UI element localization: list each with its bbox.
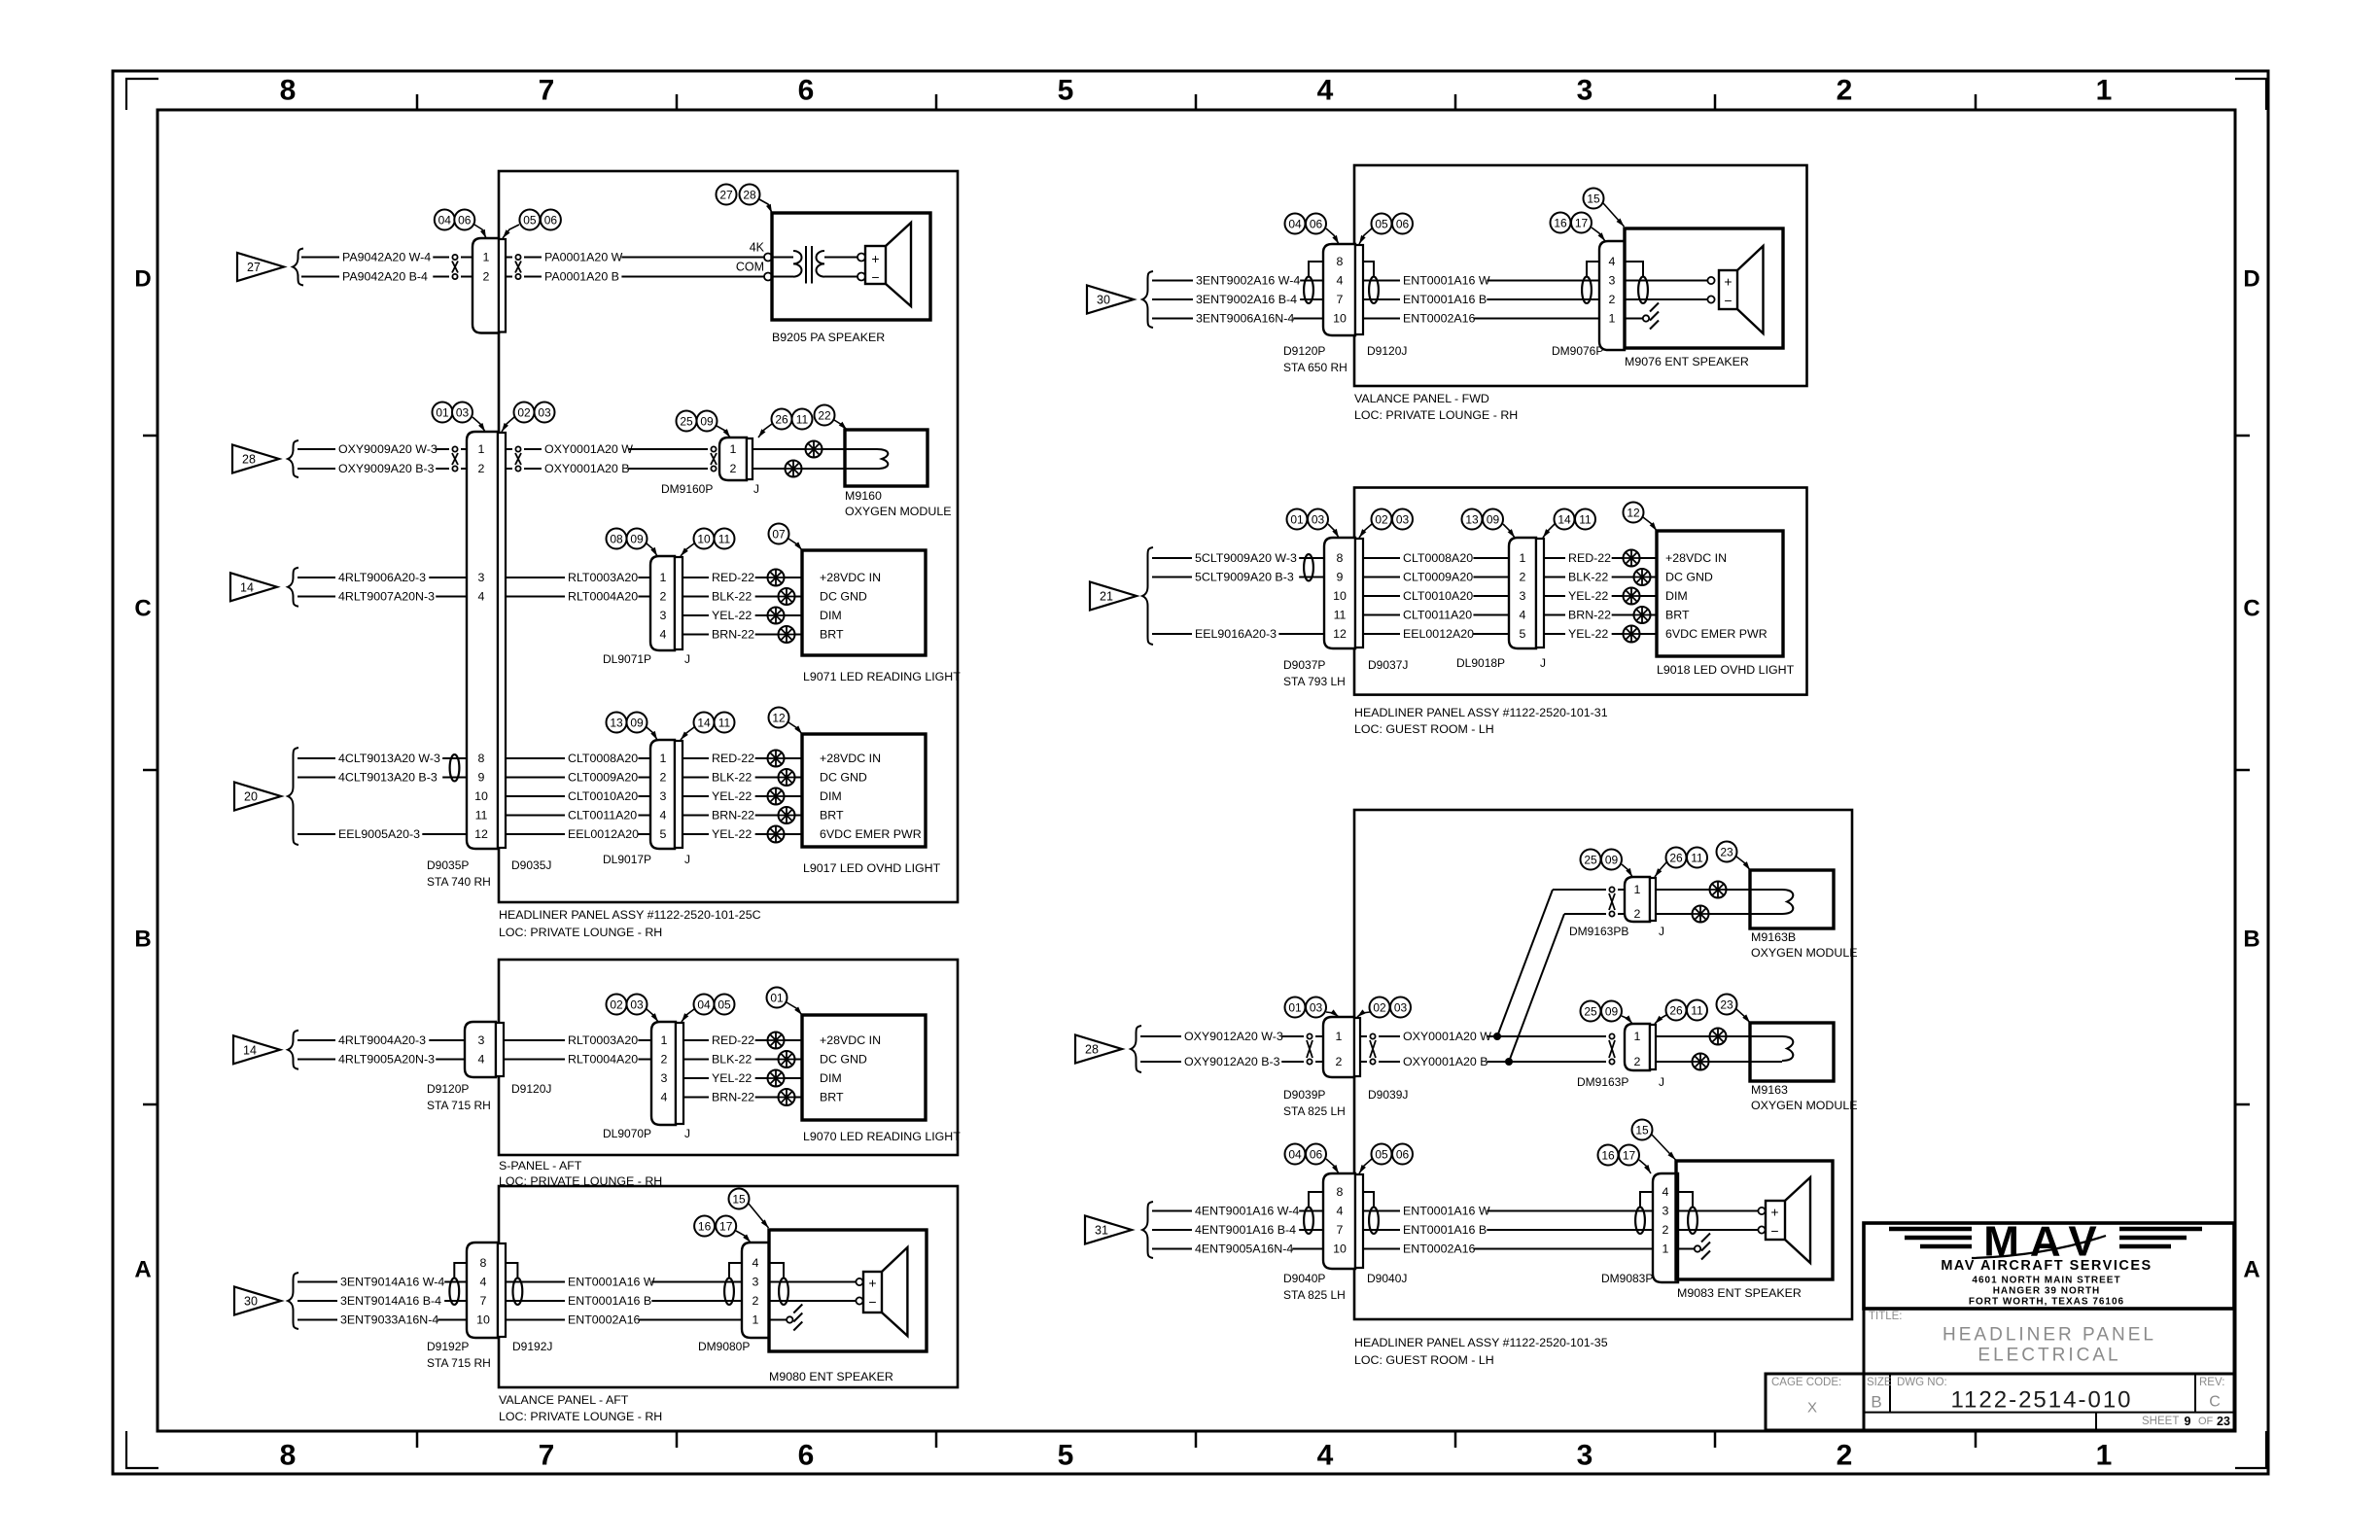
- svg-text:BLK-22: BLK-22: [1568, 571, 1608, 584]
- svg-text:CLT0010A20: CLT0010A20: [1403, 589, 1473, 603]
- svg-text:−: −: [1770, 1223, 1778, 1239]
- svg-text:3ENT9002A16 W-4: 3ENT9002A16 W-4: [1196, 274, 1300, 288]
- svg-text:10: 10: [1333, 589, 1347, 603]
- svg-text:+28VDC IN: +28VDC IN: [820, 571, 881, 584]
- svg-text:2: 2: [661, 1053, 668, 1067]
- svg-text:06: 06: [1396, 1148, 1410, 1162]
- svg-text:ENT0002A16: ENT0002A16: [568, 1313, 641, 1327]
- svg-text:D: D: [134, 266, 151, 293]
- svg-text:11: 11: [718, 533, 731, 546]
- svg-text:09: 09: [1605, 1005, 1619, 1019]
- svg-text:17: 17: [1575, 217, 1589, 230]
- svg-text:ENT0001A16 W: ENT0001A16 W: [1403, 1205, 1490, 1218]
- svg-text:EEL0012A20: EEL0012A20: [568, 827, 639, 841]
- svg-text:3ENT9014A16 B-4: 3ENT9014A16 B-4: [340, 1294, 441, 1308]
- svg-text:4ENT9001A16 W-4: 4ENT9001A16 W-4: [1195, 1205, 1299, 1218]
- svg-text:VALANCE PANEL - AFT: VALANCE PANEL - AFT: [499, 1393, 629, 1407]
- svg-text:20: 20: [244, 790, 258, 804]
- svg-text:DIM: DIM: [1665, 589, 1688, 603]
- svg-text:STA 740 RH: STA 740 RH: [427, 875, 491, 889]
- svg-text:10: 10: [476, 1313, 490, 1327]
- svg-text:06: 06: [1310, 218, 1323, 231]
- svg-text:3: 3: [1520, 589, 1526, 603]
- svg-text:03: 03: [1394, 1001, 1408, 1015]
- svg-text:X: X: [1807, 1400, 1817, 1417]
- svg-text:4: 4: [660, 628, 667, 642]
- svg-text:DM9080P: DM9080P: [698, 1340, 750, 1353]
- svg-text:OXYGEN MODULE: OXYGEN MODULE: [1751, 946, 1857, 960]
- svg-text:−: −: [1724, 293, 1732, 308]
- svg-text:C: C: [2209, 1394, 2221, 1411]
- svg-text:YEL-22: YEL-22: [1568, 627, 1608, 641]
- svg-text:M9163: M9163: [1751, 1083, 1788, 1097]
- svg-text:25: 25: [680, 415, 693, 429]
- svg-text:1: 1: [1634, 883, 1641, 896]
- svg-text:3: 3: [1577, 75, 1593, 107]
- svg-text:D9037J: D9037J: [1368, 658, 1408, 672]
- svg-text:BRT: BRT: [820, 809, 844, 822]
- svg-text:22: 22: [818, 409, 831, 423]
- svg-text:D9035P: D9035P: [427, 858, 469, 872]
- svg-text:10: 10: [1333, 1242, 1347, 1256]
- svg-text:DM9160P: DM9160P: [661, 482, 713, 496]
- svg-text:4CLT9013A20 B-3: 4CLT9013A20 B-3: [338, 771, 437, 785]
- svg-text:04: 04: [438, 214, 452, 227]
- svg-text:RLT0003A20: RLT0003A20: [568, 1033, 638, 1047]
- svg-text:STA 715 RH: STA 715 RH: [427, 1356, 491, 1370]
- svg-text:D9120J: D9120J: [511, 1082, 551, 1096]
- svg-text:YEL-22: YEL-22: [1568, 589, 1608, 603]
- svg-text:−: −: [868, 1294, 876, 1310]
- svg-text:28: 28: [242, 453, 256, 467]
- svg-text:DIM: DIM: [820, 789, 842, 803]
- svg-text:09: 09: [1605, 854, 1619, 867]
- svg-text:8: 8: [280, 1440, 297, 1472]
- svg-text:02: 02: [1375, 513, 1388, 527]
- svg-text:DL9017P: DL9017P: [603, 853, 651, 866]
- svg-text:23: 23: [2217, 1415, 2230, 1428]
- svg-text:RED-22: RED-22: [712, 752, 754, 765]
- svg-text:10: 10: [474, 789, 488, 803]
- svg-text:OXY0001A20 W: OXY0001A20 W: [544, 442, 633, 456]
- svg-text:CLT0008A20: CLT0008A20: [568, 752, 638, 765]
- svg-text:27: 27: [719, 189, 733, 202]
- svg-text:1: 1: [661, 1033, 668, 1047]
- svg-text:4: 4: [660, 809, 667, 822]
- svg-text:4: 4: [1337, 1205, 1344, 1218]
- svg-text:DIM: DIM: [820, 609, 842, 622]
- svg-text:RED-22: RED-22: [712, 571, 754, 584]
- svg-text:1: 1: [660, 752, 667, 765]
- svg-text:DL9070P: DL9070P: [603, 1127, 651, 1140]
- svg-text:COM: COM: [736, 261, 764, 274]
- svg-text:ELECTRICAL: ELECTRICAL: [1977, 1346, 2120, 1366]
- svg-text:BRN-22: BRN-22: [712, 809, 754, 822]
- svg-text:DM9163PB: DM9163PB: [1569, 925, 1628, 938]
- svg-text:08: 08: [610, 533, 623, 546]
- svg-text:2: 2: [1662, 1223, 1669, 1237]
- svg-text:OXYGEN MODULE: OXYGEN MODULE: [845, 505, 951, 518]
- svg-text:4: 4: [752, 1256, 759, 1270]
- svg-text:8: 8: [480, 1256, 487, 1270]
- svg-text:07: 07: [772, 528, 786, 542]
- svg-text:09: 09: [1487, 513, 1500, 527]
- svg-text:OXY0001A20 W: OXY0001A20 W: [1403, 1030, 1491, 1043]
- svg-text:BRT: BRT: [820, 1091, 844, 1104]
- svg-text:05: 05: [523, 214, 537, 227]
- svg-text:J: J: [1540, 656, 1546, 670]
- svg-text:DM9083P: DM9083P: [1601, 1272, 1653, 1285]
- svg-text:5CLT9009A20 W-3: 5CLT9009A20 W-3: [1195, 551, 1297, 565]
- svg-text:OXY9009A20 B-3: OXY9009A20 B-3: [338, 462, 435, 475]
- svg-text:C: C: [134, 596, 151, 622]
- svg-text:BLK-22: BLK-22: [712, 590, 752, 604]
- svg-text:26: 26: [775, 413, 788, 427]
- svg-text:HEADLINER PANEL ASSY #1122-252: HEADLINER PANEL ASSY #1122-2520-101-35: [1354, 1336, 1608, 1349]
- svg-text:D9035J: D9035J: [511, 858, 551, 872]
- svg-text:D9192P: D9192P: [427, 1340, 469, 1353]
- svg-text:4: 4: [480, 1276, 487, 1289]
- svg-text:YEL-22: YEL-22: [712, 789, 752, 803]
- svg-text:RLT0004A20: RLT0004A20: [568, 1053, 638, 1067]
- svg-text:06: 06: [544, 214, 558, 227]
- svg-text:HEADLINER PANEL ASSY #1122-252: HEADLINER PANEL ASSY #1122-2520-101-25C: [499, 908, 761, 922]
- svg-text:L9070 LED READING LIGHT: L9070 LED READING LIGHT: [803, 1130, 961, 1143]
- svg-text:30: 30: [244, 1295, 258, 1309]
- svg-text:RED-22: RED-22: [712, 1033, 754, 1047]
- svg-text:ENT0002A16: ENT0002A16: [1403, 1242, 1476, 1256]
- svg-text:YEL-22: YEL-22: [712, 827, 752, 841]
- svg-text:09: 09: [700, 415, 714, 429]
- svg-text:PA9042A20 W-4: PA9042A20 W-4: [342, 251, 431, 264]
- svg-text:2: 2: [660, 590, 667, 604]
- svg-text:11: 11: [718, 717, 731, 730]
- svg-text:D9120J: D9120J: [1367, 344, 1407, 358]
- svg-text:DM9076P: DM9076P: [1552, 344, 1603, 358]
- svg-text:ENT0001A16 W: ENT0001A16 W: [568, 1276, 655, 1289]
- svg-text:9: 9: [478, 771, 485, 785]
- svg-text:−: −: [871, 269, 879, 285]
- svg-text:DC GND: DC GND: [820, 771, 867, 785]
- svg-text:4: 4: [478, 1053, 485, 1067]
- svg-text:REV:: REV:: [2199, 1377, 2224, 1388]
- svg-text:RLT0004A20: RLT0004A20: [568, 590, 638, 604]
- svg-text:CLT0009A20: CLT0009A20: [568, 771, 638, 785]
- svg-text:3: 3: [661, 1071, 668, 1085]
- svg-text:BRT: BRT: [1665, 609, 1690, 622]
- svg-text:DIM: DIM: [820, 1071, 842, 1085]
- svg-text:STA 715 RH: STA 715 RH: [427, 1099, 491, 1112]
- svg-text:12: 12: [772, 712, 786, 725]
- svg-text:4601 NORTH MAIN STREET: 4601 NORTH MAIN STREET: [1972, 1276, 2120, 1286]
- svg-text:D9040P: D9040P: [1283, 1272, 1325, 1285]
- svg-text:01: 01: [770, 992, 784, 1005]
- svg-text:8: 8: [1337, 1185, 1344, 1199]
- svg-text:15: 15: [732, 1193, 746, 1207]
- svg-text:PA0001A20 B: PA0001A20 B: [544, 270, 619, 284]
- svg-text:OXY9012A20 B-3: OXY9012A20 B-3: [1184, 1055, 1280, 1068]
- svg-text:3ENT9014A16 W-4: 3ENT9014A16 W-4: [340, 1276, 444, 1289]
- svg-text:02: 02: [1373, 1001, 1386, 1015]
- svg-text:HANGER 39 NORTH: HANGER 39 NORTH: [1993, 1286, 2101, 1297]
- svg-text:DL9071P: DL9071P: [603, 652, 651, 666]
- svg-text:11: 11: [1691, 852, 1703, 865]
- svg-text:31: 31: [1095, 1224, 1108, 1238]
- svg-text:7: 7: [1337, 1223, 1344, 1237]
- svg-text:16: 16: [698, 1220, 712, 1234]
- svg-text:14: 14: [243, 1043, 257, 1057]
- svg-text:2: 2: [483, 270, 490, 284]
- svg-text:B: B: [2243, 927, 2259, 953]
- svg-text:2: 2: [1837, 1440, 1853, 1472]
- svg-text:17: 17: [719, 1220, 733, 1234]
- svg-text:PA0001A20 W: PA0001A20 W: [544, 251, 623, 264]
- svg-text:05: 05: [1375, 218, 1388, 231]
- svg-text:13: 13: [610, 717, 623, 730]
- svg-text:4: 4: [478, 590, 485, 604]
- svg-text:1: 1: [1336, 1030, 1343, 1043]
- svg-text:4: 4: [1317, 1440, 1334, 1472]
- svg-text:25: 25: [1584, 1005, 1597, 1019]
- svg-text:05: 05: [1375, 1148, 1388, 1162]
- svg-text:15: 15: [1587, 192, 1600, 206]
- svg-text:FORT WORTH, TEXAS 76106: FORT WORTH, TEXAS 76106: [1969, 1297, 2124, 1308]
- svg-text:BRT: BRT: [820, 628, 844, 642]
- svg-text:CLT0008A20: CLT0008A20: [1403, 551, 1473, 565]
- svg-text:2: 2: [1336, 1055, 1343, 1068]
- svg-text:DC GND: DC GND: [820, 590, 867, 604]
- svg-text:1: 1: [752, 1313, 759, 1327]
- svg-text:LOC: PRIVATE LOUNGE - RH: LOC: PRIVATE LOUNGE - RH: [499, 1410, 662, 1423]
- svg-text:02: 02: [517, 406, 531, 420]
- svg-text:DC GND: DC GND: [820, 1053, 867, 1067]
- svg-text:3: 3: [1609, 274, 1616, 288]
- svg-text:7: 7: [1337, 293, 1344, 306]
- svg-text:4: 4: [1662, 1185, 1669, 1199]
- svg-text:2: 2: [1837, 75, 1853, 107]
- svg-text:OF: OF: [2198, 1416, 2214, 1427]
- svg-text:D9037P: D9037P: [1283, 658, 1325, 672]
- svg-text:2: 2: [1634, 907, 1641, 921]
- svg-text:3: 3: [478, 1033, 485, 1047]
- svg-text:TITLE:: TITLE:: [1869, 1311, 1903, 1322]
- svg-text:M9080 ENT SPEAKER: M9080 ENT SPEAKER: [769, 1370, 893, 1383]
- svg-text:25: 25: [1584, 854, 1597, 867]
- svg-text:BLK-22: BLK-22: [712, 771, 752, 785]
- svg-text:11: 11: [1334, 609, 1347, 622]
- svg-text:CLT0011A20: CLT0011A20: [568, 809, 637, 822]
- svg-text:A: A: [134, 1257, 151, 1283]
- svg-text:DM9163P: DM9163P: [1577, 1075, 1628, 1089]
- svg-text:J: J: [684, 853, 690, 866]
- svg-text:5: 5: [1520, 627, 1526, 641]
- svg-text:DWG NO:: DWG NO:: [1897, 1377, 1947, 1388]
- svg-text:SIZE: SIZE: [1867, 1377, 1892, 1388]
- svg-text:L9071 LED READING LIGHT: L9071 LED READING LIGHT: [803, 670, 961, 683]
- svg-text:MAV AIRCRAFT SERVICES: MAV AIRCRAFT SERVICES: [1941, 1258, 2152, 1274]
- svg-text:2: 2: [730, 462, 737, 475]
- svg-text:A: A: [2243, 1257, 2259, 1283]
- svg-text:M9163B: M9163B: [1751, 930, 1796, 944]
- svg-text:06: 06: [1310, 1148, 1323, 1162]
- svg-text:05: 05: [717, 998, 731, 1012]
- svg-text:LOC: PRIVATE LOUNGE - RH: LOC: PRIVATE LOUNGE - RH: [499, 1174, 662, 1188]
- svg-text:SHEET: SHEET: [2142, 1416, 2179, 1427]
- svg-text:S-PANEL - AFT: S-PANEL - AFT: [499, 1159, 582, 1172]
- svg-text:4RLT9006A20-3: 4RLT9006A20-3: [338, 571, 426, 584]
- svg-text:L9017 LED OVHD LIGHT: L9017 LED OVHD LIGHT: [803, 861, 941, 875]
- svg-text:01: 01: [1288, 1001, 1302, 1015]
- svg-text:09: 09: [630, 717, 644, 730]
- svg-text:2: 2: [752, 1294, 759, 1308]
- svg-text:HEADLINER PANEL: HEADLINER PANEL: [1942, 1325, 2156, 1346]
- svg-text:1: 1: [478, 442, 485, 456]
- svg-text:+28VDC IN: +28VDC IN: [820, 752, 881, 765]
- svg-text:4CLT9013A20 W-3: 4CLT9013A20 W-3: [338, 752, 440, 765]
- svg-text:L9018 LED OVHD LIGHT: L9018 LED OVHD LIGHT: [1657, 663, 1795, 677]
- svg-text:4: 4: [1317, 75, 1334, 107]
- svg-text:DC GND: DC GND: [1665, 571, 1713, 584]
- svg-text:D9120P: D9120P: [427, 1082, 469, 1096]
- svg-text:01: 01: [1290, 513, 1304, 527]
- svg-text:28: 28: [1085, 1043, 1099, 1057]
- svg-text:2: 2: [478, 462, 485, 475]
- svg-text:11: 11: [1579, 513, 1592, 527]
- svg-text:LOC: PRIVATE LOUNGE - RH: LOC: PRIVATE LOUNGE - RH: [499, 926, 662, 939]
- svg-text:6: 6: [798, 1440, 815, 1472]
- svg-text:6: 6: [798, 75, 815, 107]
- svg-text:7: 7: [539, 1440, 555, 1472]
- svg-text:+: +: [1724, 274, 1732, 290]
- svg-text:1: 1: [2096, 1440, 2113, 1472]
- svg-text:12: 12: [474, 827, 488, 841]
- svg-text:8: 8: [1337, 551, 1344, 565]
- svg-text:LOC: GUEST ROOM - LH: LOC: GUEST ROOM - LH: [1354, 722, 1494, 736]
- svg-text:1: 1: [483, 251, 490, 264]
- svg-text:BRN-22: BRN-22: [1568, 609, 1611, 622]
- svg-text:4: 4: [1337, 274, 1344, 288]
- svg-text:27: 27: [247, 261, 261, 274]
- svg-text:03: 03: [630, 998, 644, 1012]
- svg-text:+: +: [1770, 1205, 1778, 1220]
- svg-text:STA 793 LH: STA 793 LH: [1283, 675, 1346, 688]
- svg-text:J: J: [753, 482, 759, 496]
- svg-text:+28VDC IN: +28VDC IN: [1665, 551, 1727, 565]
- svg-text:OXY0001A20 B: OXY0001A20 B: [544, 462, 630, 475]
- svg-text:J: J: [1659, 1075, 1664, 1089]
- svg-text:15: 15: [1635, 1124, 1649, 1137]
- svg-text:06: 06: [458, 214, 472, 227]
- svg-text:30: 30: [1097, 294, 1110, 307]
- svg-text:VALANCE PANEL - FWD: VALANCE PANEL - FWD: [1354, 392, 1489, 405]
- svg-text:9: 9: [1337, 571, 1344, 584]
- svg-text:7: 7: [539, 75, 555, 107]
- svg-text:D9040J: D9040J: [1367, 1272, 1407, 1285]
- svg-text:1: 1: [660, 571, 667, 584]
- svg-text:4RLT9004A20-3: 4RLT9004A20-3: [338, 1033, 426, 1047]
- svg-text:02: 02: [610, 998, 623, 1012]
- svg-text:M9076 ENT SPEAKER: M9076 ENT SPEAKER: [1625, 355, 1749, 368]
- svg-text:3: 3: [660, 789, 667, 803]
- svg-text:16: 16: [1601, 1149, 1615, 1163]
- svg-text:10: 10: [1333, 312, 1347, 326]
- svg-text:ENT0001A16 B: ENT0001A16 B: [568, 1294, 651, 1308]
- svg-text:4RLT9007A20N-3: 4RLT9007A20N-3: [338, 590, 435, 604]
- svg-text:4: 4: [1609, 255, 1616, 268]
- svg-text:B: B: [134, 927, 151, 953]
- svg-text:12: 12: [1627, 507, 1640, 520]
- svg-text:J: J: [684, 652, 690, 666]
- svg-text:+28VDC IN: +28VDC IN: [820, 1033, 881, 1047]
- svg-text:5: 5: [1058, 75, 1074, 107]
- svg-text:LOC: PRIVATE LOUNGE - RH: LOC: PRIVATE LOUNGE - RH: [1354, 408, 1518, 422]
- svg-text:1: 1: [1634, 1030, 1641, 1043]
- svg-text:EEL0012A20: EEL0012A20: [1403, 627, 1474, 641]
- svg-text:D: D: [2243, 266, 2259, 293]
- svg-text:11: 11: [1691, 1004, 1703, 1018]
- svg-text:4K: 4K: [750, 241, 765, 255]
- svg-text:04: 04: [1288, 1148, 1302, 1162]
- svg-text:2: 2: [1634, 1055, 1641, 1068]
- svg-text:9: 9: [2185, 1415, 2191, 1428]
- svg-text:D9120P: D9120P: [1283, 344, 1325, 358]
- svg-text:04: 04: [1288, 218, 1302, 231]
- svg-text:1: 1: [1609, 312, 1616, 326]
- svg-text:HEADLINER PANEL ASSY #1122-252: HEADLINER PANEL ASSY #1122-2520-101-31: [1354, 706, 1608, 719]
- svg-text:28: 28: [743, 189, 756, 202]
- svg-text:STA 825 LH: STA 825 LH: [1283, 1288, 1346, 1302]
- svg-text:BRN-22: BRN-22: [712, 628, 754, 642]
- svg-text:23: 23: [1720, 846, 1733, 859]
- svg-text:03: 03: [1312, 513, 1325, 527]
- svg-text:26: 26: [1669, 852, 1683, 865]
- svg-text:4RLT9005A20N-3: 4RLT9005A20N-3: [338, 1053, 435, 1067]
- svg-text:01: 01: [436, 406, 449, 420]
- svg-text:OXY9012A20 W-3: OXY9012A20 W-3: [1184, 1030, 1283, 1043]
- svg-text:EEL9016A20-3: EEL9016A20-3: [1195, 627, 1277, 641]
- svg-text:23: 23: [1720, 998, 1733, 1012]
- svg-text:B: B: [1871, 1393, 1881, 1412]
- svg-text:3: 3: [1662, 1205, 1669, 1218]
- svg-text:D9039P: D9039P: [1283, 1088, 1325, 1102]
- svg-text:LOC: GUEST ROOM - LH: LOC: GUEST ROOM - LH: [1354, 1353, 1494, 1367]
- svg-text:B9205 PA SPEAKER: B9205 PA SPEAKER: [772, 331, 885, 344]
- svg-text:06: 06: [1396, 218, 1410, 231]
- svg-text:8: 8: [478, 752, 485, 765]
- svg-text:04: 04: [697, 998, 711, 1012]
- svg-text:+: +: [871, 251, 879, 266]
- svg-text:OXYGEN MODULE: OXYGEN MODULE: [1751, 1099, 1857, 1112]
- svg-text:03: 03: [456, 406, 470, 420]
- svg-text:CLT0009A20: CLT0009A20: [1403, 571, 1473, 584]
- svg-text:OXY9009A20 W-3: OXY9009A20 W-3: [338, 442, 437, 456]
- svg-text:2: 2: [660, 771, 667, 785]
- svg-text:4: 4: [661, 1091, 668, 1104]
- svg-text:03: 03: [538, 406, 551, 420]
- svg-text:J: J: [1659, 925, 1664, 938]
- svg-text:6VDC EMER PWR: 6VDC EMER PWR: [820, 827, 922, 841]
- svg-text:M9083 ENT SPEAKER: M9083 ENT SPEAKER: [1677, 1286, 1802, 1300]
- svg-text:10: 10: [697, 533, 711, 546]
- svg-text:3ENT9033A16N-4: 3ENT9033A16N-4: [340, 1313, 438, 1327]
- svg-text:3ENT9006A16N-4: 3ENT9006A16N-4: [1196, 312, 1294, 326]
- svg-text:YEL-22: YEL-22: [712, 1071, 752, 1085]
- svg-text:ENT0001A16 W: ENT0001A16 W: [1403, 274, 1490, 288]
- svg-text:14: 14: [697, 717, 711, 730]
- svg-text:7: 7: [480, 1294, 487, 1308]
- svg-text:STA 825 LH: STA 825 LH: [1283, 1104, 1346, 1118]
- svg-text:4ENT9005A16N-4: 4ENT9005A16N-4: [1195, 1242, 1293, 1256]
